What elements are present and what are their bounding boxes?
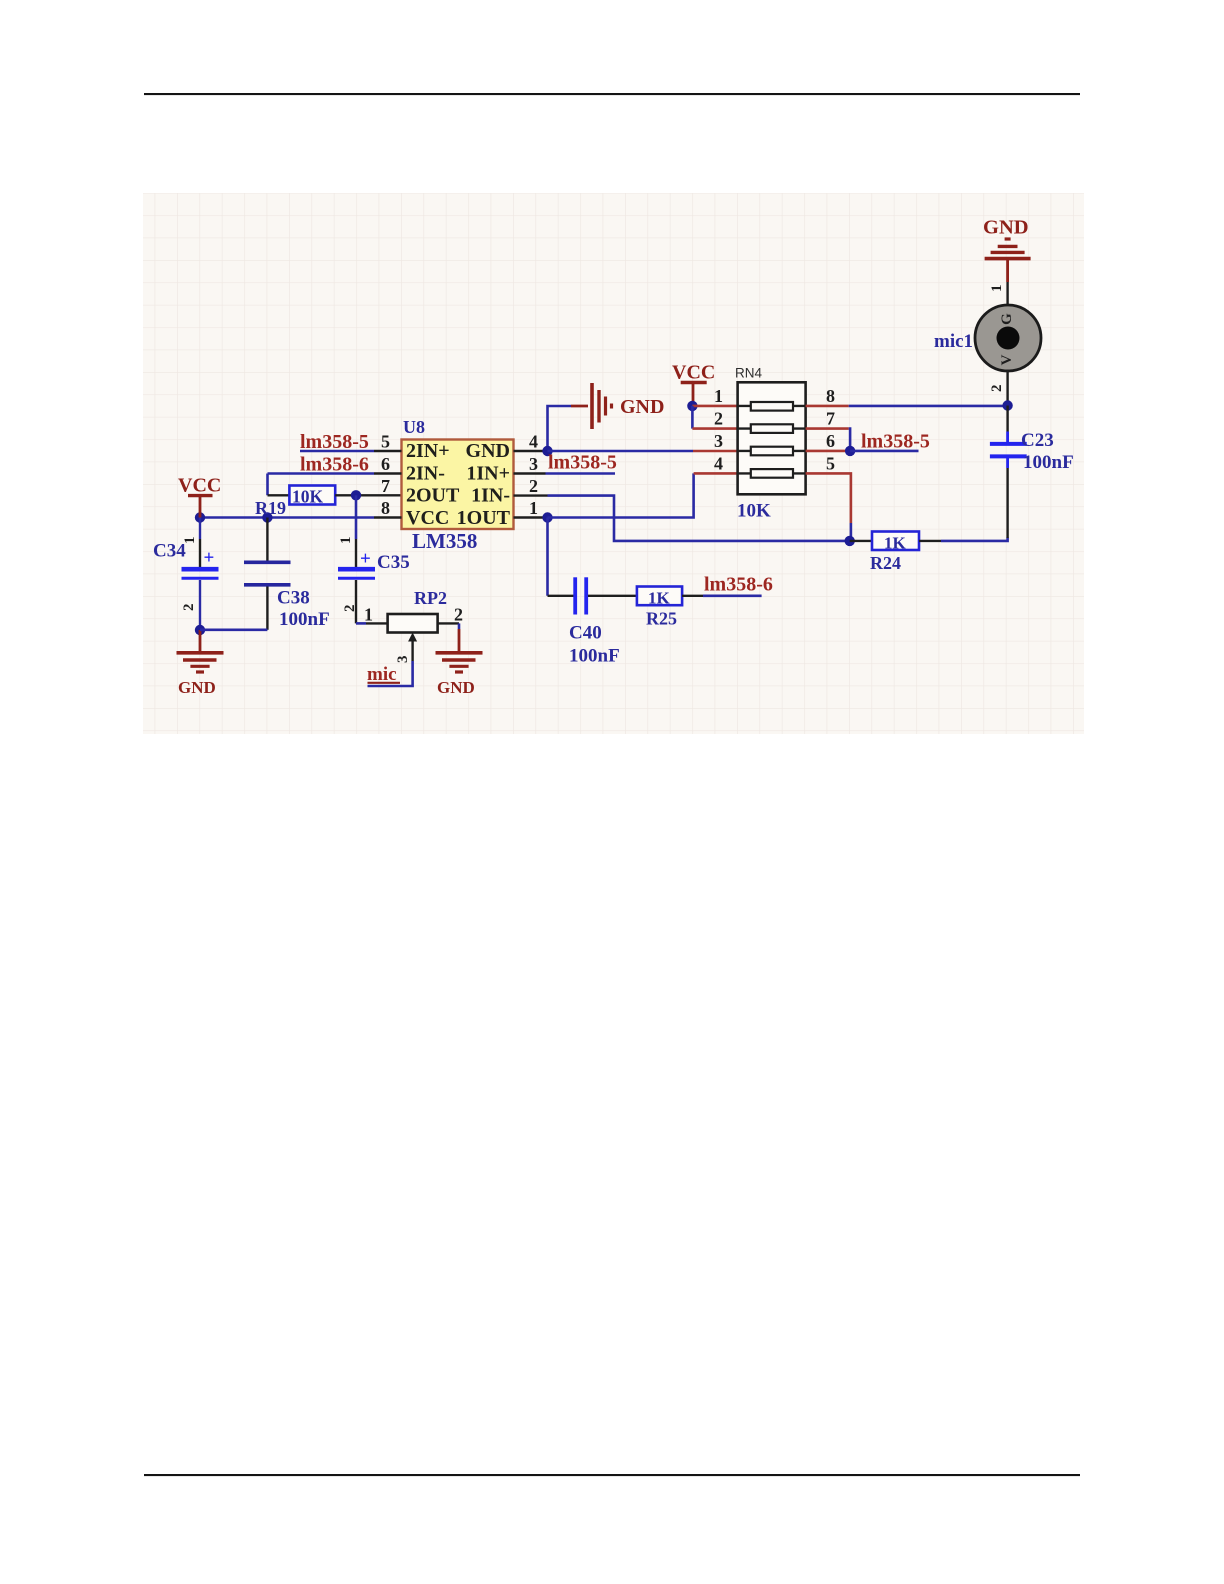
node pin4 junction (542, 446, 552, 456)
op-amp U8 LM358 (402, 417, 514, 553)
svg-text:R25: R25 (646, 609, 677, 629)
svg-text:8: 8 (381, 498, 390, 518)
svg-text:C23: C23 (1021, 430, 1054, 451)
wire RN4 pin6 (806, 450, 851, 453)
capacitor C34 (153, 518, 219, 631)
svg-text:GND: GND (983, 217, 1029, 239)
node pin1 junction (542, 512, 552, 522)
mic jack mic1 (934, 282, 1041, 406)
ground GND left (177, 630, 224, 697)
svg-text:2: 2 (714, 409, 723, 429)
svg-text:1: 1 (364, 605, 373, 625)
net label lm358-5 pin5 (300, 431, 374, 453)
svg-text:4: 4 (714, 454, 723, 474)
svg-text:GND: GND (178, 678, 216, 697)
svg-text:mic1: mic1 (934, 331, 973, 352)
svg-text:C38: C38 (277, 588, 310, 609)
wire RP2 pin2 to ground (438, 623, 459, 652)
resistor R24 1K (850, 532, 941, 574)
pin 1 RN4 (714, 386, 723, 406)
wire RP2 wiper to mic (368, 661, 413, 686)
svg-text:1IN+: 1IN+ (466, 462, 510, 484)
svg-text:2: 2 (989, 385, 1005, 393)
svg-text:2: 2 (342, 605, 358, 613)
node RN4 pin6 junction (845, 446, 855, 456)
capacitor C40 (548, 577, 637, 666)
net label mic (367, 664, 400, 685)
svg-text:VCC: VCC (178, 475, 221, 497)
svg-text:GND: GND (620, 396, 664, 418)
pin 7 RN4 (826, 409, 835, 429)
svg-text:5: 5 (826, 454, 835, 474)
pin 1 stub U8 (514, 498, 548, 518)
power VCC left (178, 475, 221, 518)
svg-text:+: + (360, 549, 371, 570)
wire pin4 to GND symbol (548, 406, 572, 451)
resistor R19 10K (255, 486, 402, 519)
pin 3 RN4 (714, 431, 723, 451)
ground GND top (inverted) (983, 217, 1031, 283)
ground GND near U8 (horizontal) (571, 383, 664, 429)
svg-text:1K: 1K (884, 533, 907, 552)
node GND-left junction (195, 625, 205, 635)
node VCC-RN4 junction (687, 401, 697, 411)
svg-text:10K: 10K (737, 501, 771, 522)
pin 8 RN4 (826, 386, 835, 406)
resistor R25 1K (637, 587, 703, 629)
wire VCC rail pin8 row (200, 516, 374, 519)
svg-text:1IN-: 1IN- (471, 485, 510, 507)
svg-text:U8: U8 (403, 417, 425, 437)
node mic jack junction (1002, 400, 1012, 410)
svg-text:2IN+: 2IN+ (406, 440, 450, 462)
svg-text:2IN-: 2IN- (406, 462, 445, 484)
node C38 junction (262, 512, 272, 522)
svg-text:100nF: 100nF (569, 646, 620, 667)
svg-text:GND: GND (437, 678, 475, 697)
svg-text:1OUT: 1OUT (457, 507, 511, 529)
svg-text:lm358-5: lm358-5 (548, 452, 617, 474)
net label lm358-5 pin3 (546, 452, 617, 474)
svg-text:RP2: RP2 (414, 588, 447, 608)
pin 2 stub U8 (514, 476, 548, 496)
wire pin1 1OUT to RN4 pin4 (548, 473, 738, 517)
wire RN4 pin7 down to pin6 row (806, 429, 851, 451)
svg-text:1K: 1K (648, 588, 671, 607)
svg-text:4: 4 (529, 432, 538, 452)
node VCC-left junction (195, 512, 205, 522)
wire VCC to RN4 pin1 (692, 405, 737, 408)
wire pin4 row to RN4 pin3 (548, 450, 738, 453)
pin 5 stub U8 (374, 432, 402, 452)
svg-text:RN4: RN4 (735, 366, 762, 381)
svg-text:C40: C40 (569, 623, 602, 644)
svg-text:1: 1 (529, 498, 538, 518)
svg-text:lm358-6: lm358-6 (704, 574, 773, 596)
svg-text:1: 1 (714, 386, 723, 406)
potentiometer RP2 (356, 588, 463, 663)
svg-text:VCC: VCC (406, 507, 449, 529)
svg-text:8: 8 (826, 386, 835, 406)
svg-text:6: 6 (826, 431, 835, 451)
net label lm358-5 RN4 (850, 431, 930, 453)
svg-text:2: 2 (181, 604, 197, 612)
svg-text:C35: C35 (377, 552, 410, 573)
svg-text:7: 7 (826, 409, 835, 429)
svg-text:3: 3 (529, 454, 538, 474)
svg-text:VCC: VCC (672, 362, 715, 384)
page top rule (144, 93, 1080, 95)
svg-text:7: 7 (381, 476, 390, 496)
node R24 junction (845, 536, 855, 546)
svg-text:2OUT: 2OUT (406, 485, 460, 507)
svg-text:2: 2 (454, 605, 463, 625)
svg-text:1: 1 (182, 537, 198, 545)
pin 8 stub U8 (374, 498, 402, 518)
pin 2 RN4 (714, 409, 723, 429)
pin 6 stub U8 (374, 454, 402, 474)
ground GND right of RP2 (436, 653, 483, 697)
svg-text:2: 2 (529, 476, 538, 496)
pin 4 stub U8 (514, 432, 548, 452)
pin 5 RN4 (826, 454, 835, 474)
svg-text:100nF: 100nF (279, 609, 330, 630)
net label lm358-6 right (703, 574, 773, 596)
svg-text:R19: R19 (255, 498, 286, 518)
resistor network RN4 (735, 366, 806, 522)
svg-text:R24: R24 (870, 553, 901, 573)
pin 4 RN4 (714, 454, 723, 474)
svg-text:5: 5 (381, 432, 390, 452)
svg-text:100nF: 100nF (1023, 452, 1074, 473)
svg-text:GND: GND (466, 440, 510, 462)
pin 6 RN4 (826, 431, 835, 451)
svg-text:+: + (204, 548, 215, 569)
svg-text:3: 3 (395, 656, 411, 664)
svg-text:G: G (999, 313, 1015, 325)
wire R24 to C23 (941, 538, 1008, 541)
schematic sheet background (143, 193, 1084, 734)
svg-text:LM358: LM358 (412, 529, 477, 553)
wire VCC down to RN4 pin2 (692, 406, 737, 429)
wire pin2 1IN- to R24 row (548, 496, 850, 541)
svg-text:6: 6 (381, 454, 390, 474)
wire 2IN- to R19 (266, 474, 269, 496)
svg-text:10K: 10K (292, 487, 324, 507)
svg-text:V: V (999, 354, 1015, 365)
page bottom rule (144, 1474, 1080, 1476)
pin 3 stub U8 (514, 454, 546, 474)
capacitor C38 (200, 518, 330, 631)
net label lm358-6 pin6 (268, 454, 375, 476)
node 2OUT junction (351, 490, 361, 500)
svg-text:3: 3 (714, 431, 723, 451)
capacitor C35 (338, 495, 410, 623)
svg-text:lm358-5: lm358-5 (861, 431, 930, 453)
pin 7 stub U8 (381, 476, 390, 496)
wire RN4 pin8 to mic jack (806, 405, 1008, 408)
wire pin1 down to C40 (546, 518, 549, 596)
capacitor C23 (990, 406, 1074, 539)
svg-text:1: 1 (338, 537, 354, 545)
svg-text:1: 1 (989, 285, 1005, 293)
power VCC right (672, 362, 715, 406)
wire RN4 pin5 down to R24 (806, 473, 851, 541)
